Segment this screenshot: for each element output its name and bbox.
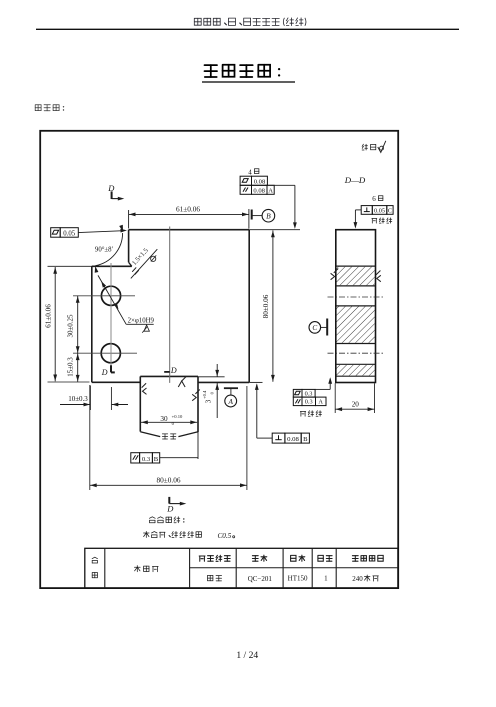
svg-text:30: 30 xyxy=(160,415,168,423)
svg-text:1 / 24: 1 / 24 xyxy=(236,650,258,661)
dimension 61±0.06 left xyxy=(44,266,92,382)
svg-text:A: A xyxy=(318,399,323,406)
dimension 15±0.3 left xyxy=(67,353,80,382)
svg-text:B: B xyxy=(266,212,271,221)
label 锉削面 xyxy=(372,218,392,223)
svg-text:C: C xyxy=(388,207,392,214)
page number 1/24 xyxy=(236,650,258,661)
svg-text:B: B xyxy=(154,456,159,463)
hole centerlines xyxy=(73,296,137,353)
table cell 图号 xyxy=(252,555,266,561)
svg-text:90°±8′: 90°±8′ xyxy=(95,247,114,254)
svg-text:6: 6 xyxy=(372,195,376,203)
dimension 3+0.4 step xyxy=(202,364,219,418)
svg-text:+0.10: +0.10 xyxy=(172,414,183,419)
svg-text:20: 20 xyxy=(352,400,360,408)
svg-text:C: C xyxy=(312,324,317,332)
svg-text:0.08: 0.08 xyxy=(254,179,266,186)
header rule xyxy=(36,28,459,30)
svg-text:D: D xyxy=(170,366,177,375)
label 锯割 saw-cut xyxy=(162,434,176,439)
roughness mark section right face xyxy=(376,271,381,282)
svg-text:C0.5: C0.5 xyxy=(218,532,232,540)
svg-text:B: B xyxy=(303,436,308,443)
feature frame perpendicularity 0.08 B xyxy=(255,383,310,443)
general roughness note 其余 xyxy=(362,141,386,153)
page title 考试图纸 xyxy=(202,65,295,82)
table cell 直角块 xyxy=(134,566,158,572)
svg-text:0.08: 0.08 xyxy=(253,188,265,195)
table cell 加工工时 xyxy=(352,555,383,561)
svg-text:0.05: 0.05 xyxy=(374,207,385,214)
roughness mark tenon right face xyxy=(192,390,200,401)
table cell HT150 xyxy=(288,575,308,583)
feature frame flatness 0.08 xyxy=(240,176,267,186)
dimension 61±0.06 top xyxy=(129,204,249,228)
section mark D top xyxy=(107,183,124,201)
section hole axis lines xyxy=(328,297,384,353)
table cell QC-201 xyxy=(248,575,273,583)
dimension 10±0.3 xyxy=(60,386,128,411)
title block table grid xyxy=(85,548,398,588)
table cell 初级 xyxy=(208,575,222,581)
table cell qty 1 xyxy=(324,575,328,583)
table cell 名称 xyxy=(92,557,97,578)
svg-text:61±0.06: 61±0.06 xyxy=(44,304,52,328)
svg-text:80±0.06: 80±0.06 xyxy=(156,475,180,484)
feature frame parallelism 0.3 A xyxy=(293,377,332,405)
header text line xyxy=(194,18,306,26)
svg-text:D: D xyxy=(166,504,174,514)
svg-text:0.3: 0.3 xyxy=(142,456,151,463)
dimension 30+0.10 tenon width xyxy=(141,414,197,426)
angle dimension 90°±8′ xyxy=(95,225,123,273)
svg-text:0.3: 0.3 xyxy=(305,391,313,398)
section mark D jog at tenon xyxy=(164,366,177,375)
section mark D bottom xyxy=(166,497,186,514)
feature frame parallelism 0.08 A xyxy=(240,185,274,194)
label 4处 xyxy=(248,168,259,176)
svg-text:0.3: 0.3 xyxy=(305,399,313,406)
svg-text:80±0.06: 80±0.06 xyxy=(262,294,270,318)
hole label 2×φ10H9 leader xyxy=(98,275,155,332)
svg-text:A: A xyxy=(268,188,273,195)
leader 4处 frames xyxy=(267,185,296,229)
hole H1 2xφ10H9 upper xyxy=(101,286,120,305)
dimension 20 section width xyxy=(335,383,374,413)
notes 技术要求 xyxy=(149,517,184,523)
chamfer dimension 1.5×1.5 xyxy=(131,247,158,279)
svg-text:+0.4: +0.4 xyxy=(202,390,207,399)
part outline 直角块 main view xyxy=(92,230,249,437)
datum C xyxy=(309,319,327,336)
feature frame flatness 0.3 xyxy=(293,389,315,397)
cutting plane trace through tenon xyxy=(169,227,171,383)
label 錾削面 xyxy=(300,411,321,417)
dimension 80±0.06 bottom xyxy=(90,385,247,490)
flatness frame 0.05 top-left xyxy=(51,228,127,238)
roughness mark tenon left face xyxy=(142,383,147,394)
datum B xyxy=(252,209,275,222)
notes 去毛刺 孔口倒角C0.5 xyxy=(144,531,235,540)
svg-text:2×φ10H9: 2×φ10H9 xyxy=(128,318,155,325)
svg-text:10±0.3: 10±0.3 xyxy=(68,395,88,403)
hole H2 φ10H9 lower xyxy=(101,344,120,363)
dimension 30±0.25 left xyxy=(67,296,80,353)
feature frame perpendicularity 0.05 C xyxy=(354,206,394,229)
label 初级工 xyxy=(35,105,64,111)
table cell 240分钟 xyxy=(352,575,378,583)
svg-text:D—D: D—D xyxy=(344,175,366,185)
svg-text:4: 4 xyxy=(248,168,252,176)
svg-text:HT150: HT150 xyxy=(288,575,308,583)
svg-text:0.08: 0.08 xyxy=(287,436,299,443)
svg-text:61±0.06: 61±0.06 xyxy=(176,204,200,213)
svg-text:0.05: 0.05 xyxy=(63,230,75,237)
svg-text:240: 240 xyxy=(352,575,363,583)
roughness mark tenon top face xyxy=(178,376,186,387)
drawing frame xyxy=(40,131,398,588)
section mark D jog at lower hole xyxy=(101,365,115,377)
svg-text:15±0.3: 15±0.3 xyxy=(67,357,75,377)
extension lines bottom-right step xyxy=(198,377,263,459)
roughness mark section left face xyxy=(331,269,339,280)
table cell 参考等级 xyxy=(199,555,230,561)
svg-text:QC−201: QC−201 xyxy=(248,575,273,583)
section title D—D xyxy=(344,175,366,185)
label 6处 xyxy=(372,195,383,203)
datum A xyxy=(224,388,238,407)
svg-text:D: D xyxy=(101,368,108,377)
section D-D body with hatched bands xyxy=(336,230,376,383)
cutting plane trace through holes xyxy=(110,263,112,365)
table cell 数量 xyxy=(318,555,332,561)
feature frame parallelism 0.3 B xyxy=(131,453,198,463)
svg-text:A: A xyxy=(228,398,234,406)
svg-text:30±0.25: 30±0.25 xyxy=(67,314,75,338)
svg-text:D: D xyxy=(107,183,115,193)
dimension 80±0.06 right xyxy=(249,230,300,382)
svg-text:1: 1 xyxy=(324,575,328,583)
table cell 材料 xyxy=(291,555,305,561)
